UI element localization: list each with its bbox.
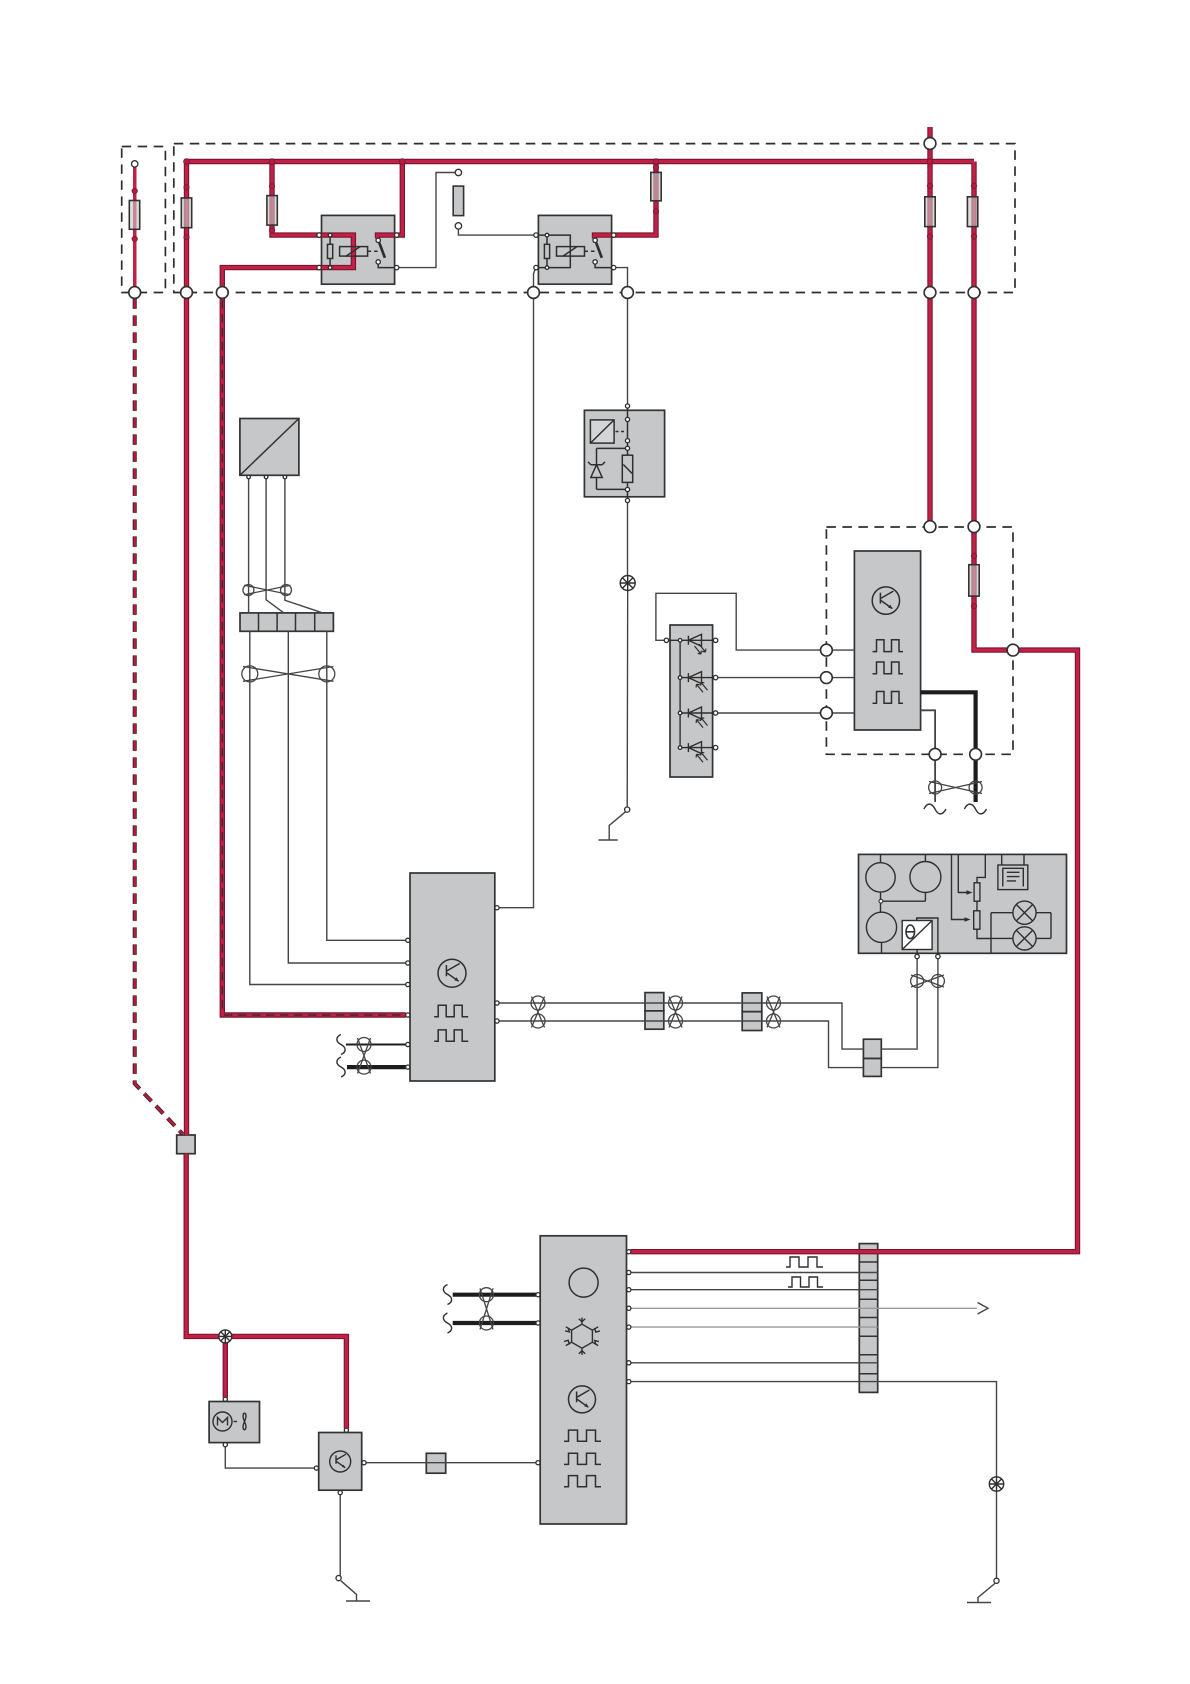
HVAC unit output wire 2 to cluster <box>497 1021 863 1068</box>
photodiode 2 <box>688 672 701 684</box>
ground bar (pressure sensor) <box>346 1600 370 1602</box>
theta glyph <box>906 925 915 939</box>
HVAC unit PWM symbols <box>434 1005 468 1041</box>
thick black wires to A/C unit left pins <box>453 1293 536 1297</box>
cluster gauge 2 <box>924 854 926 861</box>
twisted pair mark blower upper <box>243 585 254 596</box>
ground switch blade (pressure sensor) <box>341 1581 357 1601</box>
heater element feeds <box>1002 854 1024 865</box>
lamp wiring <box>991 913 1051 939</box>
pressure sensor to A/C unit wire <box>364 1462 538 1464</box>
heater element <box>998 865 1028 890</box>
temp sensor wires <box>917 918 938 954</box>
valve position indicator square <box>590 420 614 443</box>
resistor block output wires to HVAC unit <box>250 631 406 984</box>
A/C unit PWM symbols <box>564 1430 601 1487</box>
wire relay K2 coil low to node 31 <box>534 270 536 288</box>
potentiometer 1 <box>974 883 980 901</box>
relay K1 actuation dashes <box>368 250 381 252</box>
relay K2 body <box>538 215 611 284</box>
inline connector block 1 <box>742 993 762 1012</box>
splice symbol (valve ground circuit) <box>620 576 635 591</box>
medium black wire to HVAC pin 5 <box>346 1044 406 1046</box>
inline connector 3 <box>426 1453 445 1473</box>
fan motor to pressure sensor wire <box>225 1447 314 1468</box>
ground switch blade (A/C unit) <box>978 1584 995 1603</box>
twisted pair mark blower lower <box>242 666 258 682</box>
photodiode 3 <box>688 707 701 719</box>
A/C unit wire to terminal 7 <box>629 1362 878 1364</box>
sun sensor row2 wire to power stage <box>718 677 855 679</box>
cluster gauge 3 <box>866 912 896 942</box>
ground bar (A/C unit) <box>967 1602 991 1604</box>
power stage control unit body <box>854 551 920 730</box>
A/C unit wire to terminal 3 <box>629 1289 878 1291</box>
red coil loop relay K1 <box>330 235 353 268</box>
blower motor wires down from box <box>248 479 250 613</box>
blower resistor block segment dividers <box>259 613 315 631</box>
red junction dots on bus and verticals <box>184 159 190 165</box>
sun sensor row3 wire to power stage <box>718 712 855 714</box>
connector node circles on boundary C <box>924 521 936 533</box>
fan motor symbol <box>213 1412 246 1431</box>
photodiode 1 <box>688 634 701 646</box>
fuse F1 (box A) <box>129 201 139 230</box>
HVAC unit transistor symbol <box>438 959 466 987</box>
twisted pair mark cluster feed 1 <box>531 996 545 1010</box>
red drop to relay K1 coil <box>272 162 330 236</box>
valve internal wire <box>597 408 628 502</box>
dashed red wire in box A down to splice <box>135 298 183 1134</box>
connector node circle battery feed <box>924 138 936 150</box>
connector strip cell dividers <box>859 1262 877 1374</box>
box A stub terminal <box>132 161 138 167</box>
A/C unit transistor symbol <box>569 1386 596 1413</box>
fan motor pins <box>223 1397 227 1401</box>
fuse F4 <box>651 172 661 200</box>
twisted pair mark HVAC black pair <box>357 1038 371 1052</box>
wire relay K2 NO to node 15 <box>614 268 628 287</box>
pressure sensor transistor symbol <box>330 1451 351 1472</box>
red node to pressure sensor <box>232 1336 347 1428</box>
valve dash-dot link <box>616 431 627 433</box>
valve suppression diode <box>588 462 605 478</box>
red drop through fuse F4 to relay K2 switch <box>595 162 657 239</box>
A/C control unit body <box>540 1236 626 1524</box>
ground switch blade (valve circuit) <box>609 812 625 840</box>
photodiode 4 <box>688 742 701 754</box>
red drop through fuse F7 <box>972 162 975 287</box>
sun sensor pins <box>664 638 668 642</box>
blower resistor block <box>240 613 333 631</box>
A/C unit snowflake icon <box>564 1318 600 1355</box>
pressure sensor box <box>319 1433 362 1491</box>
fuse F8 (box C) <box>969 565 979 596</box>
thick black wire to HVAC pin 6 <box>347 1065 406 1069</box>
relay K2 coil <box>557 247 585 257</box>
red wire dark casing <box>135 127 1078 1429</box>
cluster pins <box>915 954 919 958</box>
junction dot in cluster <box>879 899 883 903</box>
wire solenoid valve to lamp splice <box>627 502 629 576</box>
blower motor box (with diagonal) <box>240 419 299 476</box>
relay K1 NO contact wire <box>378 264 394 268</box>
pressure sensor ground wire <box>339 1493 341 1576</box>
HVAC unit output wire 1 to cluster <box>497 1003 863 1049</box>
relay K2 switch blade <box>596 243 602 258</box>
thick black wire power stage output <box>921 692 976 802</box>
relay K2 coil frame <box>538 235 570 268</box>
ground bar (valve circuit) <box>599 839 618 841</box>
inline connector block A <box>645 993 664 1011</box>
splice symbol (A/C ground circuit) <box>989 1477 1003 1491</box>
potentiometer 2 <box>974 911 980 929</box>
red drop through fuse F6 <box>928 162 931 287</box>
relay K2 resistor <box>544 244 549 258</box>
A/C unit ground wire through terminal 8 <box>629 1382 997 1578</box>
sun sensor body <box>670 625 713 777</box>
relay K1 resistor <box>328 244 333 258</box>
blower motor box diagonal <box>240 419 299 476</box>
relay K1 switch blade <box>379 243 385 258</box>
wire continuation hooks (A/C pair) <box>443 1285 451 1305</box>
sun sensor row1 loop wire to power stage <box>656 593 855 650</box>
valve coil resistor <box>622 455 632 482</box>
black stripe overlay on K1 coil return wire <box>222 300 405 1015</box>
light wire to CAN arrow <box>629 1307 978 1309</box>
splice node (blower power feed) <box>219 1330 232 1343</box>
potentiometer column wires <box>977 854 991 953</box>
connector boundary box A (top left) <box>122 147 166 293</box>
fuse F3 (relay K2 coil feed, gray) <box>453 186 463 216</box>
wire lamp splice to ground switch <box>626 591 629 808</box>
fuse F7 <box>967 197 977 227</box>
potentiometer arrows <box>965 890 973 921</box>
twisted pair mark cluster feed 3 <box>767 996 781 1010</box>
red node to fan motor <box>224 1343 227 1398</box>
instrument cluster body <box>859 854 1067 953</box>
cluster gauge 1 <box>880 854 882 862</box>
twisted pair mark A/C black pair <box>479 1288 493 1302</box>
connector node circles on boundary B <box>129 287 141 299</box>
wire continuation hooks (HVAC pair) <box>337 1035 345 1055</box>
instrument cluster pin wires down to connector 2 <box>881 959 917 1049</box>
red F6 continuation to box C <box>928 298 931 520</box>
power stage transistor symbol <box>872 587 899 614</box>
power stage PWM symbols <box>873 640 904 704</box>
heater fan motor box <box>209 1402 259 1443</box>
red feed wire B1 below to splice box <box>185 298 188 1135</box>
red F7 continuation to box C <box>972 298 975 520</box>
twisted pair mark cluster feed 2 <box>669 996 683 1010</box>
relay K2 pins <box>534 233 538 237</box>
wire fuse F3 to relay K2 coil <box>458 229 534 235</box>
HVAC control unit body <box>410 873 495 1081</box>
relay K1 coil <box>340 247 368 257</box>
CAN arrowhead <box>978 1303 989 1315</box>
A/C unit blower icon <box>569 1268 598 1297</box>
twisted pair mark cluster sensor pair <box>911 975 924 988</box>
potentiometer feeds <box>952 854 969 919</box>
warning lamp 1 <box>1013 901 1036 924</box>
sun sensor internals <box>666 634 715 762</box>
connector boundary box C (right, power module) <box>826 527 1013 754</box>
red K1 coil return to HVAC unit <box>222 268 405 1015</box>
red feed wire B1 (x186) <box>185 162 188 287</box>
blower motor pins <box>247 475 251 479</box>
power stage thin ground wire to connector <box>921 710 936 802</box>
connector boundary box B (top, central electronic module) <box>174 144 1015 293</box>
ground switch contacts <box>625 807 630 812</box>
fuse F3 terminals <box>455 169 461 175</box>
relay K1 pins <box>317 233 321 237</box>
cluster temp sensor box <box>902 921 932 950</box>
connector terminal strip <box>859 1244 877 1393</box>
main red supply bus <box>187 160 975 163</box>
solenoid valve pins <box>625 404 629 408</box>
CAN bus PWM marks <box>786 1257 823 1287</box>
solenoid valve internals <box>588 408 633 502</box>
twisted pair mark power stage pair <box>929 781 942 794</box>
relay K2 NO contact wire <box>595 264 612 268</box>
light wire to terminal 5 <box>629 1326 878 1328</box>
splice junction box <box>177 1135 195 1154</box>
fuse F3a (relay K1 coil feed) <box>267 196 277 226</box>
red drop to relay K1 switch <box>378 162 403 239</box>
fuse F6 <box>925 197 935 227</box>
A/C unit pins <box>536 1293 540 1297</box>
wire relay K1 NO contact to fuse F3 <box>397 173 455 268</box>
pressure sensor pins <box>344 1428 348 1432</box>
battery feed down to node 30 <box>928 127 931 162</box>
wire node 15 down to solenoid valve <box>627 298 629 406</box>
wire node 31 down to HVAC unit pin <box>497 298 534 907</box>
A/C unit wire to terminal 2 <box>629 1272 878 1274</box>
warning lamp 2 <box>1013 927 1036 950</box>
relay K1 body <box>322 215 395 284</box>
solenoid valve unit body <box>584 410 664 497</box>
relay K1 coil frame vertical <box>329 235 331 268</box>
fuse F2 <box>181 198 191 228</box>
relay K2 actuation dashes <box>585 250 598 252</box>
wire continuation squiggles (power stage pair) <box>924 804 946 814</box>
red stub in box A <box>133 167 136 287</box>
inline connector block 2 <box>863 1039 881 1058</box>
HVAC unit pins <box>406 938 410 942</box>
red feed inside box C to A/C unit <box>631 533 1078 1252</box>
red feed through splice box down to node <box>186 1154 219 1337</box>
